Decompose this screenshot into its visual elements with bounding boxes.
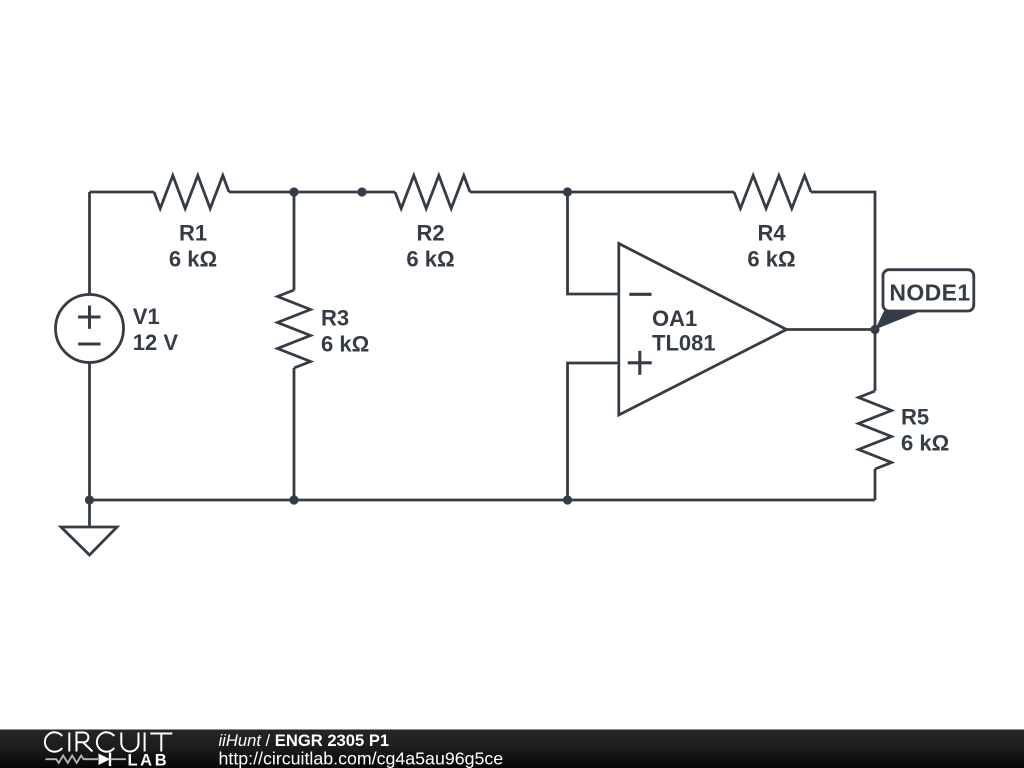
svg-text:6 kΩ: 6 kΩ xyxy=(406,247,454,272)
V1 plus symbol xyxy=(78,306,100,329)
node dot bottom rail at op-amp xyxy=(563,495,572,504)
node dot top rail at op-amp branch xyxy=(563,187,572,196)
voltage source V1 xyxy=(56,295,124,363)
wire op-amp output xyxy=(787,328,876,331)
svg-text:6 kΩ: 6 kΩ xyxy=(169,247,217,272)
svg-text:R1: R1 xyxy=(179,221,207,246)
logo diode xyxy=(99,754,111,766)
wire R3 bottom lead xyxy=(293,368,296,500)
svg-text:R3: R3 xyxy=(321,306,349,331)
logo squiggle resistor xyxy=(45,756,98,763)
wire R5 bottom lead xyxy=(874,469,877,500)
footer bar xyxy=(0,730,1024,768)
svg-text:iiHunt / ENGR 2305 P1: iiHunt / ENGR 2305 P1 xyxy=(219,731,390,750)
wire op-amp plus input xyxy=(568,363,619,500)
node dot top rail at R3 xyxy=(289,187,298,196)
wire R1 to R2 xyxy=(229,191,395,194)
svg-text:http://circuitlab.com/cg4a5au9: http://circuitlab.com/cg4a5au96g5ce xyxy=(219,749,504,768)
svg-text:R2: R2 xyxy=(416,221,444,246)
svg-text:6 kΩ: 6 kΩ xyxy=(901,431,949,456)
svg-text:R4: R4 xyxy=(757,221,786,246)
node dot output NODE1 xyxy=(870,325,879,334)
wire bottom rail xyxy=(90,499,876,502)
wire left rail top (V1 top to top rail) xyxy=(88,192,91,295)
wire ground stem xyxy=(88,500,91,527)
node dot top rail mid xyxy=(357,187,366,196)
NODE1 flag box xyxy=(883,270,974,311)
wire V1 bottom to bottom rail xyxy=(88,363,91,501)
wire R3 top lead xyxy=(293,192,296,290)
V1 minus symbol xyxy=(78,343,100,346)
op-amp OA1 body xyxy=(619,244,787,416)
ground xyxy=(61,527,117,555)
op-amp plus symbol xyxy=(628,351,652,375)
resistor R2 xyxy=(395,176,470,209)
svg-text:OA1: OA1 xyxy=(652,306,697,331)
svg-text:12 V: 12 V xyxy=(133,330,179,355)
svg-text:V1: V1 xyxy=(133,304,160,329)
node junction dots xyxy=(85,187,880,504)
svg-text:6 kΩ: 6 kΩ xyxy=(321,332,369,357)
svg-text:TL081: TL081 xyxy=(652,331,716,356)
resistor R4 xyxy=(734,176,811,209)
wire top rail left segment xyxy=(90,191,155,194)
svg-text:6 kΩ: 6 kΩ xyxy=(747,247,795,272)
wire R2 to R4 xyxy=(470,191,734,194)
svg-text:R5: R5 xyxy=(901,405,929,430)
wire R4 to right rail corner, down to output node xyxy=(811,192,875,330)
node dot bottom rail at R3 xyxy=(289,495,298,504)
wire op-amp minus input xyxy=(568,192,619,294)
resistor R1 xyxy=(154,176,229,209)
node dot bottom rail at V1 xyxy=(85,495,94,504)
svg-text:NODE1: NODE1 xyxy=(889,280,970,306)
svg-text:LAB: LAB xyxy=(128,752,170,768)
resistor R5 xyxy=(859,391,892,469)
op-amp minus symbol xyxy=(629,293,651,296)
wire R5 top lead xyxy=(874,330,877,392)
NODE1 flag pointer xyxy=(875,311,921,330)
resistor R3 xyxy=(278,290,311,368)
logo CIRCUIT text (drawn as thin strokes) xyxy=(45,732,172,751)
